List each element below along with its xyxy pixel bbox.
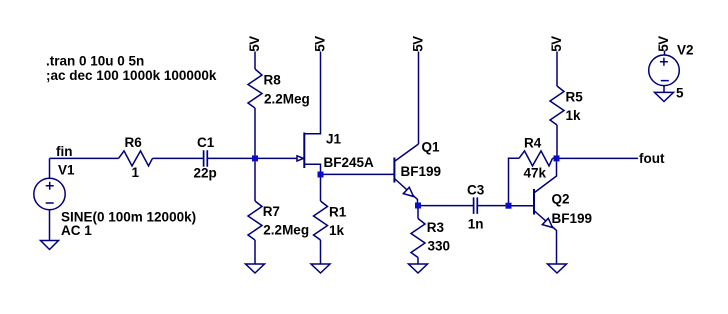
voltage source V1 bbox=[34, 178, 65, 209]
svg-text:BF199: BF199 bbox=[552, 211, 593, 226]
svg-text:R8: R8 bbox=[264, 73, 282, 88]
svg-text:R1: R1 bbox=[329, 205, 347, 220]
svg-text:1n: 1n bbox=[468, 217, 484, 232]
wire 5V to Q1 collector bbox=[418, 52, 420, 145]
wire junction to Q1 base bbox=[324, 173, 395, 175]
svg-text:5V: 5V bbox=[549, 36, 564, 52]
svg-text:1k: 1k bbox=[329, 223, 345, 238]
svg-text:V1: V1 bbox=[58, 162, 75, 177]
resistor R7 bbox=[248, 201, 262, 240]
wire junction to C3 bbox=[421, 205, 474, 207]
node junction Q1 emitter / R3 / C3 bbox=[415, 203, 421, 209]
wire junction to R1 bbox=[320, 178, 322, 202]
wire C1 to JFET gate bbox=[207, 157, 303, 159]
capacitor C1 bbox=[204, 150, 208, 167]
svg-text:AC 1: AC 1 bbox=[61, 223, 92, 238]
wire R5 to junction bbox=[556, 125, 558, 155]
svg-text:R3: R3 bbox=[427, 220, 445, 235]
svg-text:47k: 47k bbox=[524, 165, 547, 180]
wire 5V to J1 drain bbox=[304, 52, 320, 134]
voltage source V2 bbox=[649, 55, 680, 86]
capacitor C3 bbox=[474, 197, 478, 214]
wire 5V to V2 bbox=[664, 51, 666, 56]
svg-text:2.2Meg: 2.2Meg bbox=[263, 222, 309, 237]
jfet J1 bbox=[297, 133, 321, 172]
node junction C3 / R4 / Q2 base bbox=[506, 203, 512, 209]
svg-text:C3: C3 bbox=[467, 183, 485, 198]
wire R4 left leg bbox=[509, 158, 520, 202]
wire junction to R7 bbox=[254, 161, 256, 201]
wire fin to R6 bbox=[50, 157, 119, 159]
svg-text:.tran 0 10u 0 5n: .tran 0 10u 0 5n bbox=[46, 54, 144, 69]
wire 5V to R5 bbox=[556, 52, 558, 87]
svg-text:fout: fout bbox=[639, 151, 665, 166]
resistor R1 bbox=[314, 201, 328, 240]
ground under V2 bbox=[655, 92, 674, 101]
svg-text:1k: 1k bbox=[566, 108, 582, 123]
svg-text:5V: 5V bbox=[411, 36, 426, 52]
svg-text:J1: J1 bbox=[326, 132, 342, 147]
resistor R5 bbox=[550, 86, 564, 125]
ground under R1 bbox=[311, 264, 330, 273]
resistor R6 bbox=[119, 151, 153, 166]
ground under Q2 bbox=[548, 264, 567, 273]
svg-text:Q1: Q1 bbox=[422, 140, 441, 155]
svg-text:1: 1 bbox=[132, 165, 140, 180]
svg-text:R6: R6 bbox=[125, 135, 143, 150]
svg-text:22p: 22p bbox=[194, 166, 217, 181]
wire junction to fout bbox=[560, 157, 639, 159]
node junction R5 / R4 / Q2 collector / fout bbox=[554, 155, 560, 161]
transistor Q2 bbox=[534, 161, 557, 264]
svg-text:5V: 5V bbox=[247, 36, 262, 52]
svg-text:BF199: BF199 bbox=[401, 164, 442, 179]
wire R4 to junction bbox=[553, 157, 554, 159]
transistor Q1 bbox=[394, 144, 418, 206]
svg-text:fin: fin bbox=[56, 144, 73, 159]
svg-text:R5: R5 bbox=[566, 90, 584, 105]
wire R8 to junction bbox=[254, 108, 256, 155]
svg-text:5V: 5V bbox=[313, 36, 328, 52]
wire R7 to ground bbox=[254, 240, 256, 264]
svg-text:5V: 5V bbox=[656, 36, 671, 52]
svg-text:;ac dec 100 1000k 100000k: ;ac dec 100 1000k 100000k bbox=[46, 68, 217, 83]
wire R1 to ground bbox=[320, 240, 322, 264]
svg-text:V2: V2 bbox=[677, 43, 694, 58]
node junction J1 source / R1 / Q1 base bbox=[318, 172, 324, 178]
wire 5V to R8 bbox=[254, 52, 256, 70]
svg-text:C1: C1 bbox=[197, 135, 215, 150]
wire V2 bottom bbox=[663, 86, 665, 93]
wire junction to R3 bbox=[417, 209, 419, 219]
svg-text:330: 330 bbox=[428, 239, 451, 254]
wire junction to Q2 base bbox=[512, 205, 535, 207]
svg-text:5: 5 bbox=[676, 86, 684, 101]
resistor R4 bbox=[519, 151, 553, 166]
wire R6 to C1 bbox=[153, 157, 204, 159]
ground under V1 bbox=[41, 241, 59, 250]
node junction C1/R8/R7 bbox=[252, 155, 258, 161]
wire R3 to ground bbox=[417, 258, 419, 265]
svg-text:Q2: Q2 bbox=[552, 192, 570, 207]
ground under R7 bbox=[246, 264, 265, 273]
svg-text:R4: R4 bbox=[524, 136, 542, 151]
ground under R3 bbox=[409, 264, 428, 273]
resistor R8 bbox=[248, 69, 262, 108]
wire C3 to Q2 base junction bbox=[477, 205, 505, 207]
wire V1 bottom bbox=[49, 210, 51, 241]
svg-text:BF245A: BF245A bbox=[324, 155, 375, 170]
svg-text:R7: R7 bbox=[263, 204, 280, 219]
resistor R3 bbox=[411, 219, 425, 258]
wire V1 top bbox=[49, 158, 51, 178]
svg-text:2.2Meg: 2.2Meg bbox=[264, 91, 310, 106]
